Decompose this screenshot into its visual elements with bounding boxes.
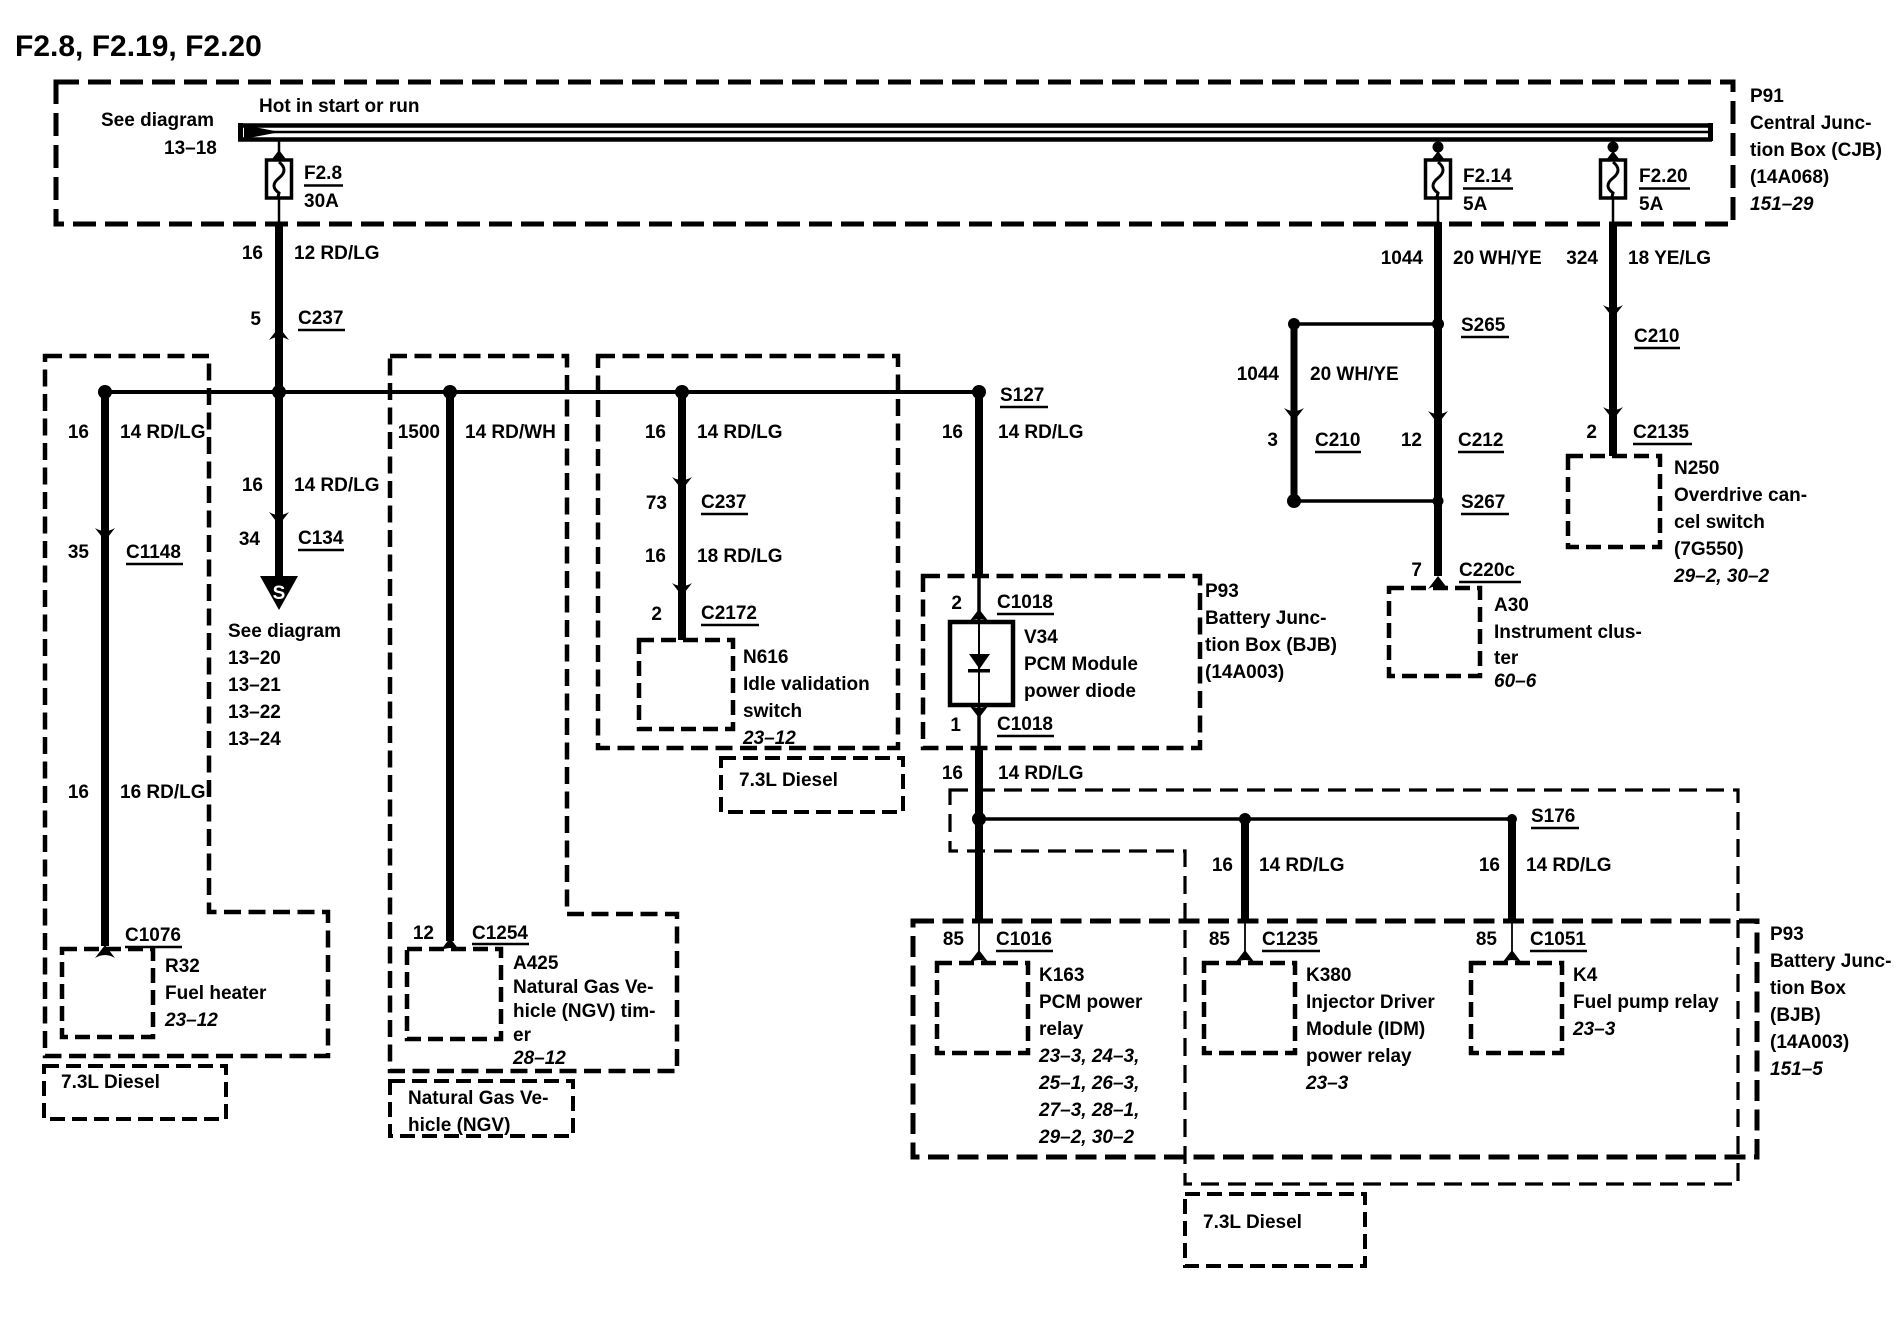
svg-text:C134: C134	[298, 528, 344, 549]
svg-text:See diagram: See diagram	[228, 621, 341, 642]
junction dot	[1239, 813, 1251, 825]
svg-text:14 RD/LG: 14 RD/LG	[998, 422, 1084, 443]
svg-text:13–20: 13–20	[228, 648, 281, 669]
junction box P93 BJB outline (V34)	[923, 576, 1200, 748]
svg-text:C220c: C220c	[1459, 560, 1515, 581]
svg-text:13–24: 13–24	[228, 729, 281, 750]
svg-text:14 RD/LG: 14 RD/LG	[120, 422, 206, 443]
node S127	[972, 385, 1048, 407]
svg-text:85: 85	[1209, 929, 1231, 950]
wire 14 RD/LG from V34 to S176 row	[975, 748, 983, 921]
svg-text:2: 2	[1586, 422, 1597, 443]
PCM module power diode V34	[950, 622, 1138, 705]
wire 14 RD/LG from S127 to V34	[975, 392, 983, 578]
svg-text:hicle (NGV): hicle (NGV)	[408, 1115, 510, 1136]
svg-text:23–3: 23–3	[1305, 1073, 1349, 1094]
svg-text:Idle validation: Idle validation	[743, 674, 870, 695]
label box Natural Gas Vehicle (NGV)	[390, 1081, 573, 1136]
svg-text:(BJB): (BJB)	[1770, 1005, 1821, 1026]
fuse F2.14 5A	[1426, 141, 1514, 223]
svg-text:16: 16	[1479, 855, 1500, 876]
connector C2135 pin 2	[1586, 407, 1692, 444]
svg-text:12 RD/LG: 12 RD/LG	[294, 243, 380, 264]
junction dot	[98, 385, 112, 399]
svg-text:1044: 1044	[1237, 364, 1280, 385]
svg-text:power diode: power diode	[1024, 681, 1136, 702]
svg-text:switch: switch	[743, 701, 802, 722]
svg-text:P93: P93	[1205, 581, 1239, 602]
junction box P93 BJB outline (relays)	[913, 921, 1757, 1157]
label P93 Battery Junction Box	[1205, 581, 1337, 683]
connector C237 pin 5	[250, 308, 345, 340]
svg-text:P93: P93	[1770, 924, 1804, 945]
connector C1235 pin 85	[1209, 929, 1320, 963]
svg-text:Overdrive can-: Overdrive can-	[1674, 485, 1807, 506]
svg-text:29–2, 30–2: 29–2, 30–2	[1673, 566, 1770, 587]
wire S265 to S267	[1434, 324, 1442, 501]
svg-text:N616: N616	[743, 647, 788, 668]
svg-text:A425: A425	[513, 953, 559, 974]
connector C2172 pin 2	[651, 583, 759, 625]
svg-text:7.3L Diesel: 7.3L Diesel	[61, 1072, 160, 1093]
svg-text:C210: C210	[1315, 430, 1360, 451]
svg-text:Natural Gas Ve-: Natural Gas Ve-	[513, 977, 653, 998]
wire 14 RD/WH to NGV timer	[446, 392, 454, 941]
svg-text:12: 12	[1401, 430, 1422, 451]
wire 14 RD/LG to K4	[1508, 819, 1516, 920]
section box 7.3L Diesel left outline	[45, 356, 328, 1056]
svg-text:C2172: C2172	[701, 603, 757, 624]
junction box P91 CJB outline	[56, 82, 1733, 224]
fuel heater R32	[62, 949, 267, 1037]
connector C212 pin 12	[1401, 411, 1504, 452]
section box idle validation outline	[598, 356, 898, 748]
fuse F2.8 30A	[267, 141, 344, 223]
svg-text:13–18: 13–18	[164, 138, 217, 159]
svg-text:Module (IDM): Module (IDM)	[1306, 1019, 1425, 1040]
section box NGV outline	[390, 356, 677, 1071]
svg-text:7.3L Diesel: 7.3L Diesel	[1203, 1212, 1302, 1233]
svg-text:3: 3	[1267, 430, 1278, 451]
svg-text:16: 16	[68, 782, 89, 803]
svg-text:60–6: 60–6	[1494, 671, 1537, 692]
svg-text:relay: relay	[1039, 1019, 1084, 1040]
wire 20 WH/YE branch to C210	[1291, 324, 1298, 501]
svg-text:(7G550): (7G550)	[1674, 539, 1744, 560]
connector C1018 pin 1	[950, 705, 1054, 736]
svg-text:tion Box: tion Box	[1770, 978, 1846, 999]
svg-text:PCM Module: PCM Module	[1024, 654, 1138, 675]
wire 18 YE/LG from F2.20	[1609, 222, 1617, 456]
svg-text:16 RD/LG: 16 RD/LG	[120, 782, 206, 803]
svg-text:18 RD/LG: 18 RD/LG	[697, 546, 783, 567]
svg-text:A30: A30	[1494, 595, 1529, 616]
wire 14 RD/LG to idle validation switch	[678, 392, 686, 640]
note See diagram 13-20 13-21 13-22 13-24	[228, 621, 341, 750]
svg-text:16: 16	[645, 546, 666, 567]
node splice row S176	[979, 817, 1512, 821]
svg-text:23–3, 24–3,: 23–3, 24–3,	[1038, 1046, 1139, 1067]
svg-text:23–12: 23–12	[164, 1010, 218, 1031]
svg-text:2: 2	[651, 604, 662, 625]
svg-text:C1148: C1148	[126, 542, 181, 563]
svg-text:25–1, 26–3,: 25–1, 26–3,	[1038, 1073, 1139, 1094]
svg-text:F2.8, F2.19, F2.20: F2.8, F2.19, F2.20	[15, 30, 262, 63]
svg-text:hicle (NGV) tim-: hicle (NGV) tim-	[513, 1001, 656, 1022]
svg-text:16: 16	[942, 763, 963, 784]
svg-text:28–12: 28–12	[512, 1048, 566, 1069]
connector C210 pin 3	[1267, 408, 1361, 452]
svg-text:S176: S176	[1531, 806, 1575, 827]
svg-text:C212: C212	[1458, 430, 1503, 451]
connector C1076	[95, 925, 182, 958]
svg-text:See diagram: See diagram	[101, 110, 214, 131]
svg-text:S: S	[273, 583, 286, 604]
svg-text:C1018: C1018	[997, 592, 1053, 613]
svg-text:73: 73	[646, 493, 667, 514]
svg-text:Instrument clus-: Instrument clus-	[1494, 622, 1642, 643]
connector C1148 pin 35	[68, 528, 183, 564]
svg-text:20 WH/YE: 20 WH/YE	[1310, 364, 1399, 385]
svg-text:tion Box (BJB): tion Box (BJB)	[1205, 635, 1337, 656]
svg-text:C210: C210	[1634, 326, 1679, 347]
label box 7.3L Diesel	[1185, 1194, 1365, 1266]
svg-text:F2.20: F2.20	[1639, 166, 1688, 187]
connector C220c pin 7	[1411, 560, 1521, 589]
splice arrow S	[260, 576, 298, 610]
svg-text:P91: P91	[1750, 86, 1784, 107]
label P93 Battery Junction Box 151-5	[1770, 924, 1891, 1080]
svg-text:Injector Driver: Injector Driver	[1306, 992, 1435, 1013]
svg-text:Fuel pump relay: Fuel pump relay	[1573, 992, 1719, 1013]
wire pin 1 lead	[977, 703, 981, 750]
svg-text:PCM power: PCM power	[1039, 992, 1143, 1013]
svg-text:S265: S265	[1461, 315, 1506, 336]
svg-text:5A: 5A	[1639, 194, 1664, 215]
svg-text:1500: 1500	[398, 422, 440, 443]
svg-text:C1254: C1254	[472, 923, 528, 944]
wire 14 RD/LG to fuel heater	[101, 392, 109, 946]
connector C1018 pin 2	[951, 592, 1054, 622]
svg-text:K4: K4	[1573, 965, 1598, 986]
bus Hot in start or run	[238, 96, 1713, 141]
svg-text:14 RD/LG: 14 RD/LG	[998, 763, 1084, 784]
svg-text:Central Junc-: Central Junc-	[1750, 113, 1871, 134]
svg-text:14 RD/WH: 14 RD/WH	[465, 422, 556, 443]
PCM power relay K163	[937, 963, 1143, 1148]
idle validation switch N616	[639, 640, 870, 749]
svg-text:Battery Junc-: Battery Junc-	[1205, 608, 1326, 629]
NGV timer A425	[407, 949, 656, 1069]
svg-text:85: 85	[1476, 929, 1498, 950]
svg-text:23–3: 23–3	[1572, 1019, 1616, 1040]
wire pin 2 lead	[977, 576, 981, 624]
svg-text:C2135: C2135	[1633, 422, 1689, 443]
wire S267 to instrument cluster	[1434, 501, 1442, 576]
svg-text:tion Box (CJB): tion Box (CJB)	[1750, 140, 1882, 161]
svg-text:1044: 1044	[1381, 248, 1424, 269]
svg-text:Battery Junc-: Battery Junc-	[1770, 951, 1891, 972]
svg-text:power relay: power relay	[1306, 1046, 1412, 1067]
svg-text:K380: K380	[1306, 965, 1351, 986]
svg-text:14 RD/LG: 14 RD/LG	[697, 422, 783, 443]
svg-text:S267: S267	[1461, 492, 1505, 513]
svg-text:C1235: C1235	[1262, 929, 1318, 950]
svg-text:(14A003): (14A003)	[1770, 1032, 1849, 1053]
svg-text:7: 7	[1411, 560, 1422, 581]
svg-text:14 RD/LG: 14 RD/LG	[1259, 855, 1345, 876]
svg-text:1: 1	[950, 715, 961, 736]
svg-text:27–3, 28–1,: 27–3, 28–1,	[1038, 1100, 1139, 1121]
svg-text:16: 16	[1212, 855, 1233, 876]
node S176	[1507, 806, 1579, 828]
svg-text:C1051: C1051	[1530, 929, 1586, 950]
label box 7.3L Diesel	[44, 1066, 226, 1119]
svg-text:K163: K163	[1039, 965, 1084, 986]
fuel pump relay K4	[1471, 963, 1719, 1053]
connector C210	[1603, 305, 1680, 348]
svg-text:16: 16	[242, 243, 263, 264]
wire 14 RD/LG to K163	[975, 819, 983, 920]
svg-text:324: 324	[1566, 248, 1598, 269]
svg-text:85: 85	[943, 929, 965, 950]
junction dot	[675, 385, 689, 399]
svg-text:18 YE/LG: 18 YE/LG	[1628, 248, 1711, 269]
injector driver module power relay K380	[1204, 963, 1435, 1094]
svg-text:34: 34	[239, 529, 261, 550]
fuse F2.20 5A	[1601, 141, 1691, 223]
svg-text:5: 5	[250, 309, 261, 330]
svg-text:C237: C237	[701, 492, 746, 513]
svg-text:R32: R32	[165, 956, 200, 977]
svg-text:151–29: 151–29	[1750, 194, 1814, 215]
connector C1051 pin 85	[1476, 929, 1587, 963]
svg-text:C1018: C1018	[997, 714, 1053, 735]
svg-text:23–12: 23–12	[742, 728, 796, 749]
wire 14 RD/LG to splice S	[275, 392, 283, 578]
svg-text:12: 12	[413, 923, 434, 944]
svg-text:29–2, 30–2: 29–2, 30–2	[1038, 1127, 1135, 1148]
section box S176 region outline	[950, 790, 1738, 1184]
svg-text:30A: 30A	[304, 191, 339, 212]
svg-text:F2.8: F2.8	[304, 163, 342, 184]
svg-text:7.3L Diesel: 7.3L Diesel	[739, 770, 838, 791]
label box 7.3L Diesel	[721, 758, 903, 812]
svg-text:14 RD/LG: 14 RD/LG	[294, 475, 380, 496]
svg-text:(14A003): (14A003)	[1205, 662, 1284, 683]
node splice row	[105, 390, 979, 394]
svg-text:(14A068): (14A068)	[1750, 167, 1829, 188]
svg-text:cel switch: cel switch	[1674, 512, 1765, 533]
svg-text:V34: V34	[1024, 627, 1058, 648]
svg-text:20 WH/YE: 20 WH/YE	[1453, 248, 1542, 269]
svg-text:16: 16	[942, 422, 963, 443]
label P91 Central Junction Box	[1750, 86, 1882, 215]
svg-text:Hot in start or run: Hot in start or run	[259, 96, 419, 117]
svg-text:Fuel heater: Fuel heater	[165, 983, 267, 1004]
svg-text:16: 16	[68, 422, 89, 443]
wire 14 RD/LG to K380	[1241, 819, 1249, 920]
wire 20 WH/YE from F2.14	[1434, 222, 1442, 324]
instrument cluster A30	[1389, 588, 1642, 692]
node S267	[1287, 492, 1509, 514]
svg-text:C1016: C1016	[996, 929, 1052, 950]
connector C1016 pin 85	[943, 929, 1053, 963]
wire 12 RD/LG from F2.8	[275, 222, 283, 392]
svg-text:16: 16	[645, 422, 666, 443]
junction dot	[272, 385, 286, 399]
svg-text:2: 2	[951, 593, 962, 614]
svg-text:Natural Gas Ve-: Natural Gas Ve-	[408, 1088, 548, 1109]
svg-text:S127: S127	[1000, 385, 1044, 406]
svg-text:14 RD/LG: 14 RD/LG	[1526, 855, 1612, 876]
connector C1254 pin 12	[413, 923, 529, 951]
junction dot	[972, 812, 986, 826]
connector C134 pin 34	[239, 512, 344, 550]
svg-text:5A: 5A	[1463, 194, 1488, 215]
junction dot	[443, 385, 457, 399]
svg-text:35: 35	[68, 542, 90, 563]
svg-text:N250: N250	[1674, 458, 1719, 479]
svg-text:151–5: 151–5	[1770, 1059, 1823, 1080]
node S265	[1288, 315, 1509, 337]
svg-text:C237: C237	[298, 308, 343, 329]
svg-text:F2.14: F2.14	[1463, 166, 1512, 187]
svg-text:13–22: 13–22	[228, 702, 281, 723]
svg-text:13–21: 13–21	[228, 675, 281, 696]
svg-text:ter: ter	[1494, 648, 1519, 669]
connector C237 pin 73	[646, 477, 748, 514]
overdrive cancel switch N250	[1568, 456, 1807, 587]
svg-text:C1076: C1076	[125, 925, 181, 946]
svg-text:16: 16	[242, 475, 263, 496]
svg-text:er: er	[513, 1025, 532, 1046]
